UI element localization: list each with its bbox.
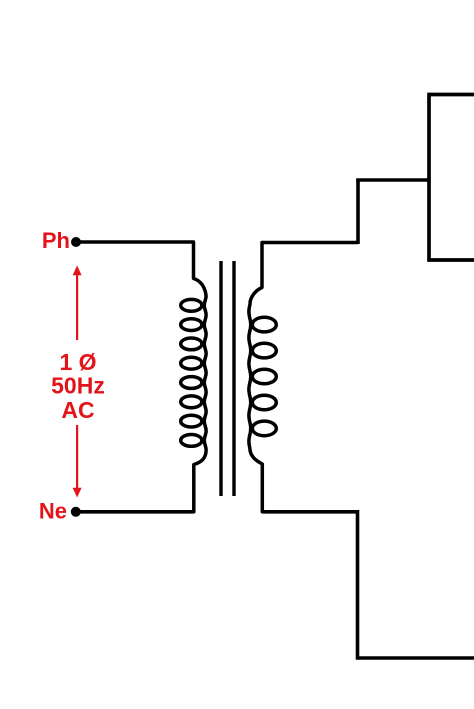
transformer primary winding turns (8 loops) [181, 299, 202, 311]
wire Ne terminal to primary bottom [76, 510, 194, 514]
wire to load box [356, 178, 429, 182]
transformer core (left lamination line) [219, 261, 222, 496]
wire riser up [356, 180, 360, 244]
load box (partially off-canvas at right) [429, 95, 474, 261]
svg-text:Ph: Ph [42, 228, 70, 253]
svg-text:1 Ø: 1 Ø [59, 349, 96, 375]
junction dot at Ne terminal [71, 507, 81, 517]
AC source span arrow (upper, pointing up) [73, 266, 82, 341]
transformer secondary winding spine with top/bottom leads [249, 243, 262, 512]
svg-text:AC: AC [61, 397, 94, 423]
wire secondary top to riser [262, 241, 358, 245]
svg-text:Ne: Ne [39, 498, 67, 523]
wire secondary bottom run to lower right [262, 512, 474, 658]
AC source span arrow (lower, pointing down) [73, 425, 82, 498]
transformer core (right lamination line) [232, 261, 235, 496]
wire Ph terminal to primary top [76, 240, 194, 244]
junction dot at Ph terminal [71, 237, 81, 247]
transformer secondary winding turns (5 loops) [252, 317, 276, 332]
transformer primary winding spine with top/bottom leads [194, 242, 207, 512]
svg-text:50Hz: 50Hz [51, 373, 105, 399]
